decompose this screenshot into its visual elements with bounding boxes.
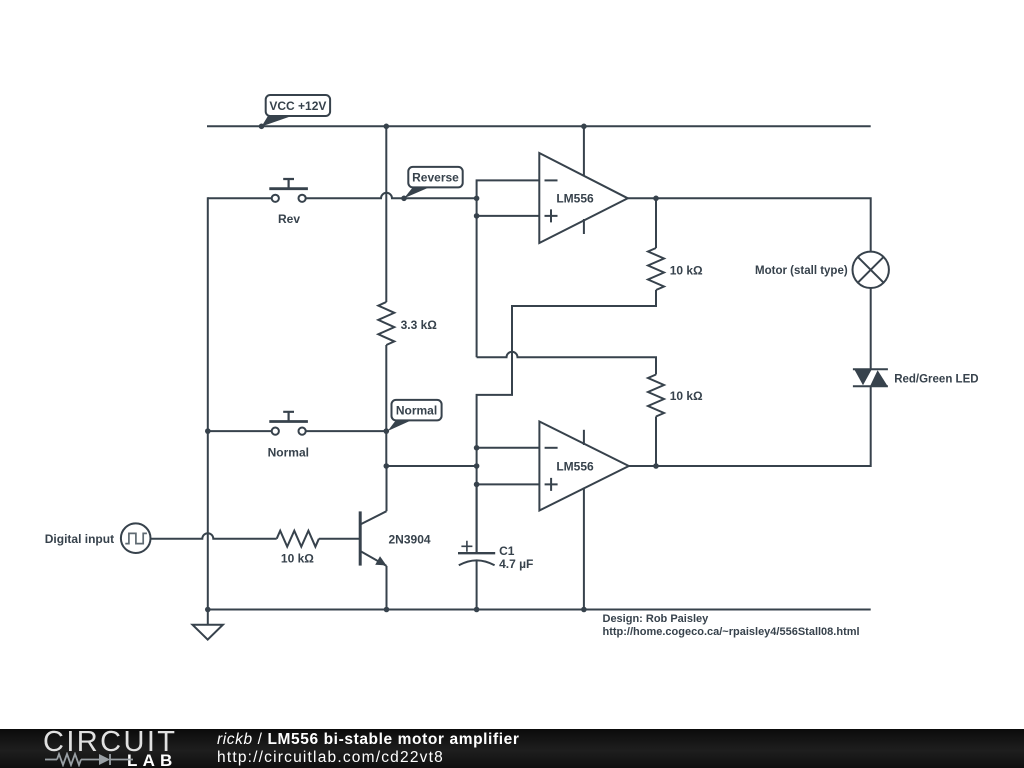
wire cross column to 10k R3 with hop over feedback [477,352,656,375]
wire op-amp1 plus input [477,215,540,217]
label Normal [268,446,309,460]
wire op-amp2 plus input [477,483,540,485]
junction opamp2 minus [474,445,480,451]
svg-text:Normal: Normal [396,404,437,418]
label LM556 U2 [556,459,594,473]
wire top VCC rail [207,125,871,127]
junction rail to opamp1 V+ [581,124,587,130]
motor M1 (lamp symbol) [853,252,889,288]
junction left rail Normal [205,428,211,434]
wire emitter vertical to ground rail [386,566,388,610]
svg-text:Normal: Normal [268,446,309,460]
footer url [217,749,444,767]
wire op-amp2 output to motor/LED column [629,386,871,466]
svg-text:2N3904: 2N3904 [389,533,431,547]
junction opamp1 plus [474,213,480,219]
LED D1 red/green bidirectional [853,369,888,386]
net flag VCC +12V [262,95,331,127]
value 10 kOhm R3 [670,389,703,403]
junction collector column [384,463,390,469]
label Red/Green LED [894,373,978,385]
net flag Normal [388,400,442,431]
junction opamp2 V- ground [581,607,587,613]
svg-text:4.7 µF: 4.7 µF [499,557,533,571]
label Rev [278,212,300,226]
svg-text:Design: Rob Paisley: Design: Rob Paisley [603,613,710,625]
footer title [217,731,519,749]
svg-text:http://home.cogeco.ca/~rpaisle: http://home.cogeco.ca/~rpaisley4/556Stal… [603,626,860,638]
value 10 kOhm R2 [670,264,703,278]
value 4.7 uF [499,557,533,571]
junction node reverse column [474,196,480,202]
wire Rev button left [208,197,272,199]
wire Normal button right [306,430,387,432]
junction output1 [653,196,659,202]
svg-text:Rev: Rev [278,212,300,226]
svg-text:LM556: LM556 [556,459,594,473]
capacitor C1 polarized [458,541,495,566]
label 2N3904 [389,533,431,547]
svg-text:3.3 kΩ: 3.3 kΩ [401,318,438,332]
wire C1 top lead [476,484,478,553]
svg-text:10 kΩ: 10 kΩ [670,264,703,278]
wire base resistor to transistor base [319,538,359,540]
junction node B [474,463,480,469]
ground symbol [193,610,223,640]
junction rail to 3.3k [384,124,390,130]
value 10 kOhm R4 [281,552,314,566]
logo CircuitLab wordmark [43,726,177,759]
logo resistor-diode squiggle [45,752,135,767]
wire Rev button right with hop over 3.3k column [306,193,477,199]
svg-text:VCC +12V: VCC +12V [269,99,326,113]
wire output1 to 10k R2 top [655,198,657,248]
wire op-amp1 V+ stub to rail [583,126,585,176]
wire digital input to base resistor with hop over ground rail [151,533,277,539]
wire Normal button left [208,430,272,432]
svg-text:Motor (stall type): Motor (stall type) [755,265,848,277]
wire R2 bottom feedback to opamp2 input column [477,290,656,553]
value 3.3 kOhm [401,318,438,332]
wire VCC to 3.3k resistor [385,126,387,302]
pushbutton Rev [269,179,308,202]
resistor R4 10k zigzag horizontal [277,531,319,547]
wire R3 bottom to output2 [655,417,657,467]
op-amp U1 LM556 [539,153,628,243]
label LM556 U1 [556,192,594,206]
op-amp U2 LM556 [539,422,628,511]
source V1 digital input [121,523,151,553]
junction Reverse tag [401,196,407,202]
wire 3.3k bottom to Normal junction and collector junction [385,345,387,466]
svg-text:LM556: LM556 [556,192,594,206]
wire collector junction from Normal column [386,465,476,467]
junction VCC tag [259,124,265,130]
wire op-amp2 V- stub to ground rail [583,488,585,610]
note design credit [603,613,710,625]
transistor Q1 2N3904 [360,511,386,566]
junction Normal column [384,428,390,434]
label Motor (stall type) [755,265,848,277]
net flag Reverse [404,167,463,198]
svg-text:10 kΩ: 10 kΩ [281,552,314,566]
junction emitter ground [384,607,390,613]
wire left ground rail [207,197,209,609]
junction output2 [653,463,659,469]
footer bar [0,729,1024,768]
resistor R1 3.3k zigzag [378,302,394,345]
svg-text:Red/Green LED: Red/Green LED [894,373,978,385]
svg-text:Reverse: Reverse [412,171,459,185]
junction ground left [205,607,211,613]
junction C1 ground [474,607,480,613]
resistor R2 10k zigzag [648,248,664,290]
wire op-amp1 minus input [477,180,540,357]
resistor R3 10k zigzag [648,375,664,417]
wire op-amp1 V- stub [583,219,585,234]
note design url [603,626,860,638]
pushbutton Normal [269,412,308,435]
wire collector vertical [386,466,388,511]
wire C1 bottom lead to ground rail [476,561,478,610]
wire op-amp1 output to motor column [628,198,871,251]
svg-text:Digital input: Digital input [45,532,114,546]
label Digital input [45,532,114,546]
junction opamp2 plus [474,482,480,488]
wire op-amp2 V+ stub [583,430,585,445]
svg-text:10 kΩ: 10 kΩ [670,389,703,403]
wire bottom ground rail [207,609,871,611]
label C1 [499,544,515,558]
wire motor bottom to LED top [870,288,872,369]
wire op-amp2 minus input [477,447,540,449]
